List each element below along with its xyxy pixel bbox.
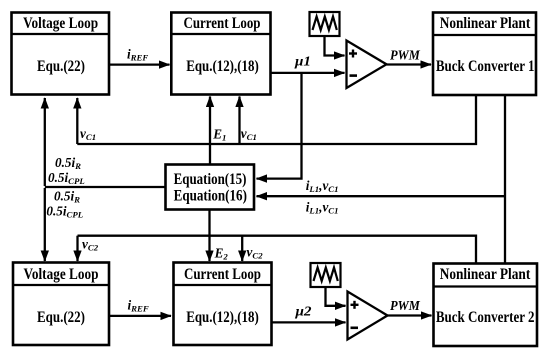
- svg-text:Buck Converter 2: Buck Converter 2: [436, 309, 535, 326]
- wire: 0.5iR,0.5iCPL output from Equation box to the left: [45, 186, 166, 188]
- sawtooth carrier box 1: [310, 12, 340, 36]
- comparator U1: [347, 41, 387, 89]
- comparator U2: [348, 292, 388, 340]
- svg-text:Nonlinear Plant: Nonlinear Plant: [440, 266, 531, 283]
- svg-text:Equ.(22): Equ.(22): [37, 309, 85, 326]
- wire: PWM from comparator 1 to Buck Converter 1: [387, 63, 432, 65]
- svg-text:Equ.(22): Equ.(22): [37, 58, 85, 75]
- wire: E1 from Equation box up into Current Loop 1: [209, 97, 211, 165]
- wire: vC2 arrow down into Voltage Loop 2: [76, 236, 78, 261]
- block Voltage Loop 2: [13, 263, 109, 346]
- wire: mu1 branch down into Equation box right side: [257, 73, 302, 179]
- wire: iREF from Voltage Loop 1 to Current Loop 1: [109, 63, 170, 65]
- wire: E2 from Equation box down into Current Loop 2: [208, 210, 210, 262]
- wire: sawtooth 2 to comparator 2 plus input: [326, 287, 346, 306]
- block Nonlinear Plant 1 / Buck Converter 1: [433, 13, 536, 96]
- wire: vC1 feedback from Buck Converter 1 down and left: [77, 95, 476, 144]
- svg-text:Buck Converter 1: Buck Converter 1: [436, 58, 535, 75]
- wire: vC1 arrow up into Voltage Loop 1: [76, 98, 78, 144]
- wire: iL1,vC1 branch left into Equation box: [257, 195, 506, 197]
- wire: iREF from Voltage Loop 2 to Current Loop 2: [109, 315, 171, 317]
- wire: vC2 arrow down into Current Loop 2: [241, 236, 243, 261]
- svg-text:Current Loop: Current Loop: [184, 15, 261, 32]
- svg-text:μ2: μ2: [294, 304, 312, 319]
- wire: mu2 from Current Loop 2 to comparator 2 minus input: [272, 321, 346, 323]
- wire: vC1 arrow up into Current Loop 1: [238, 97, 240, 145]
- wire: DC bus from Buck Converter 1 down to Buck Converter 2: [504, 95, 506, 264]
- wire: vC2 feedback from Buck Converter 2 up and left: [78, 236, 477, 264]
- block Current Loop 2: [174, 263, 272, 346]
- svg-text:Nonlinear Plant: Nonlinear Plant: [440, 15, 531, 32]
- svg-text:Voltage Loop: Voltage Loop: [24, 266, 99, 283]
- svg-text:PWM: PWM: [390, 47, 421, 62]
- svg-text:Equation(15): Equation(15): [174, 171, 247, 188]
- block Nonlinear Plant 2 / Buck Converter 2: [434, 264, 538, 347]
- sawtooth carrier box 2: [311, 263, 341, 287]
- block Current Loop 1: [171, 13, 270, 95]
- wire: mu1 from Current Loop 1 to comparator minus input: [271, 72, 345, 74]
- wire: vertical split up to Voltage Loop 1 and down to Voltage Loop 2: [44, 98, 46, 186]
- wire: sawtooth 1 to comparator plus input: [325, 36, 345, 56]
- svg-text:μ1: μ1: [294, 54, 311, 69]
- wire: PWM from comparator 2 to Buck Converter 2: [388, 314, 432, 316]
- svg-text:Equ.(12),(18): Equ.(12),(18): [186, 58, 259, 75]
- svg-text:Equ.(12),(18): Equ.(12),(18): [186, 309, 259, 326]
- svg-text:Voltage Loop: Voltage Loop: [23, 15, 98, 32]
- block Equation(15)/(16): [166, 165, 255, 210]
- svg-text:Equation(16): Equation(16): [174, 188, 247, 205]
- block Voltage Loop 1: [12, 13, 110, 95]
- svg-text:Current Loop: Current Loop: [184, 266, 261, 283]
- svg-text:PWM: PWM: [390, 298, 421, 313]
